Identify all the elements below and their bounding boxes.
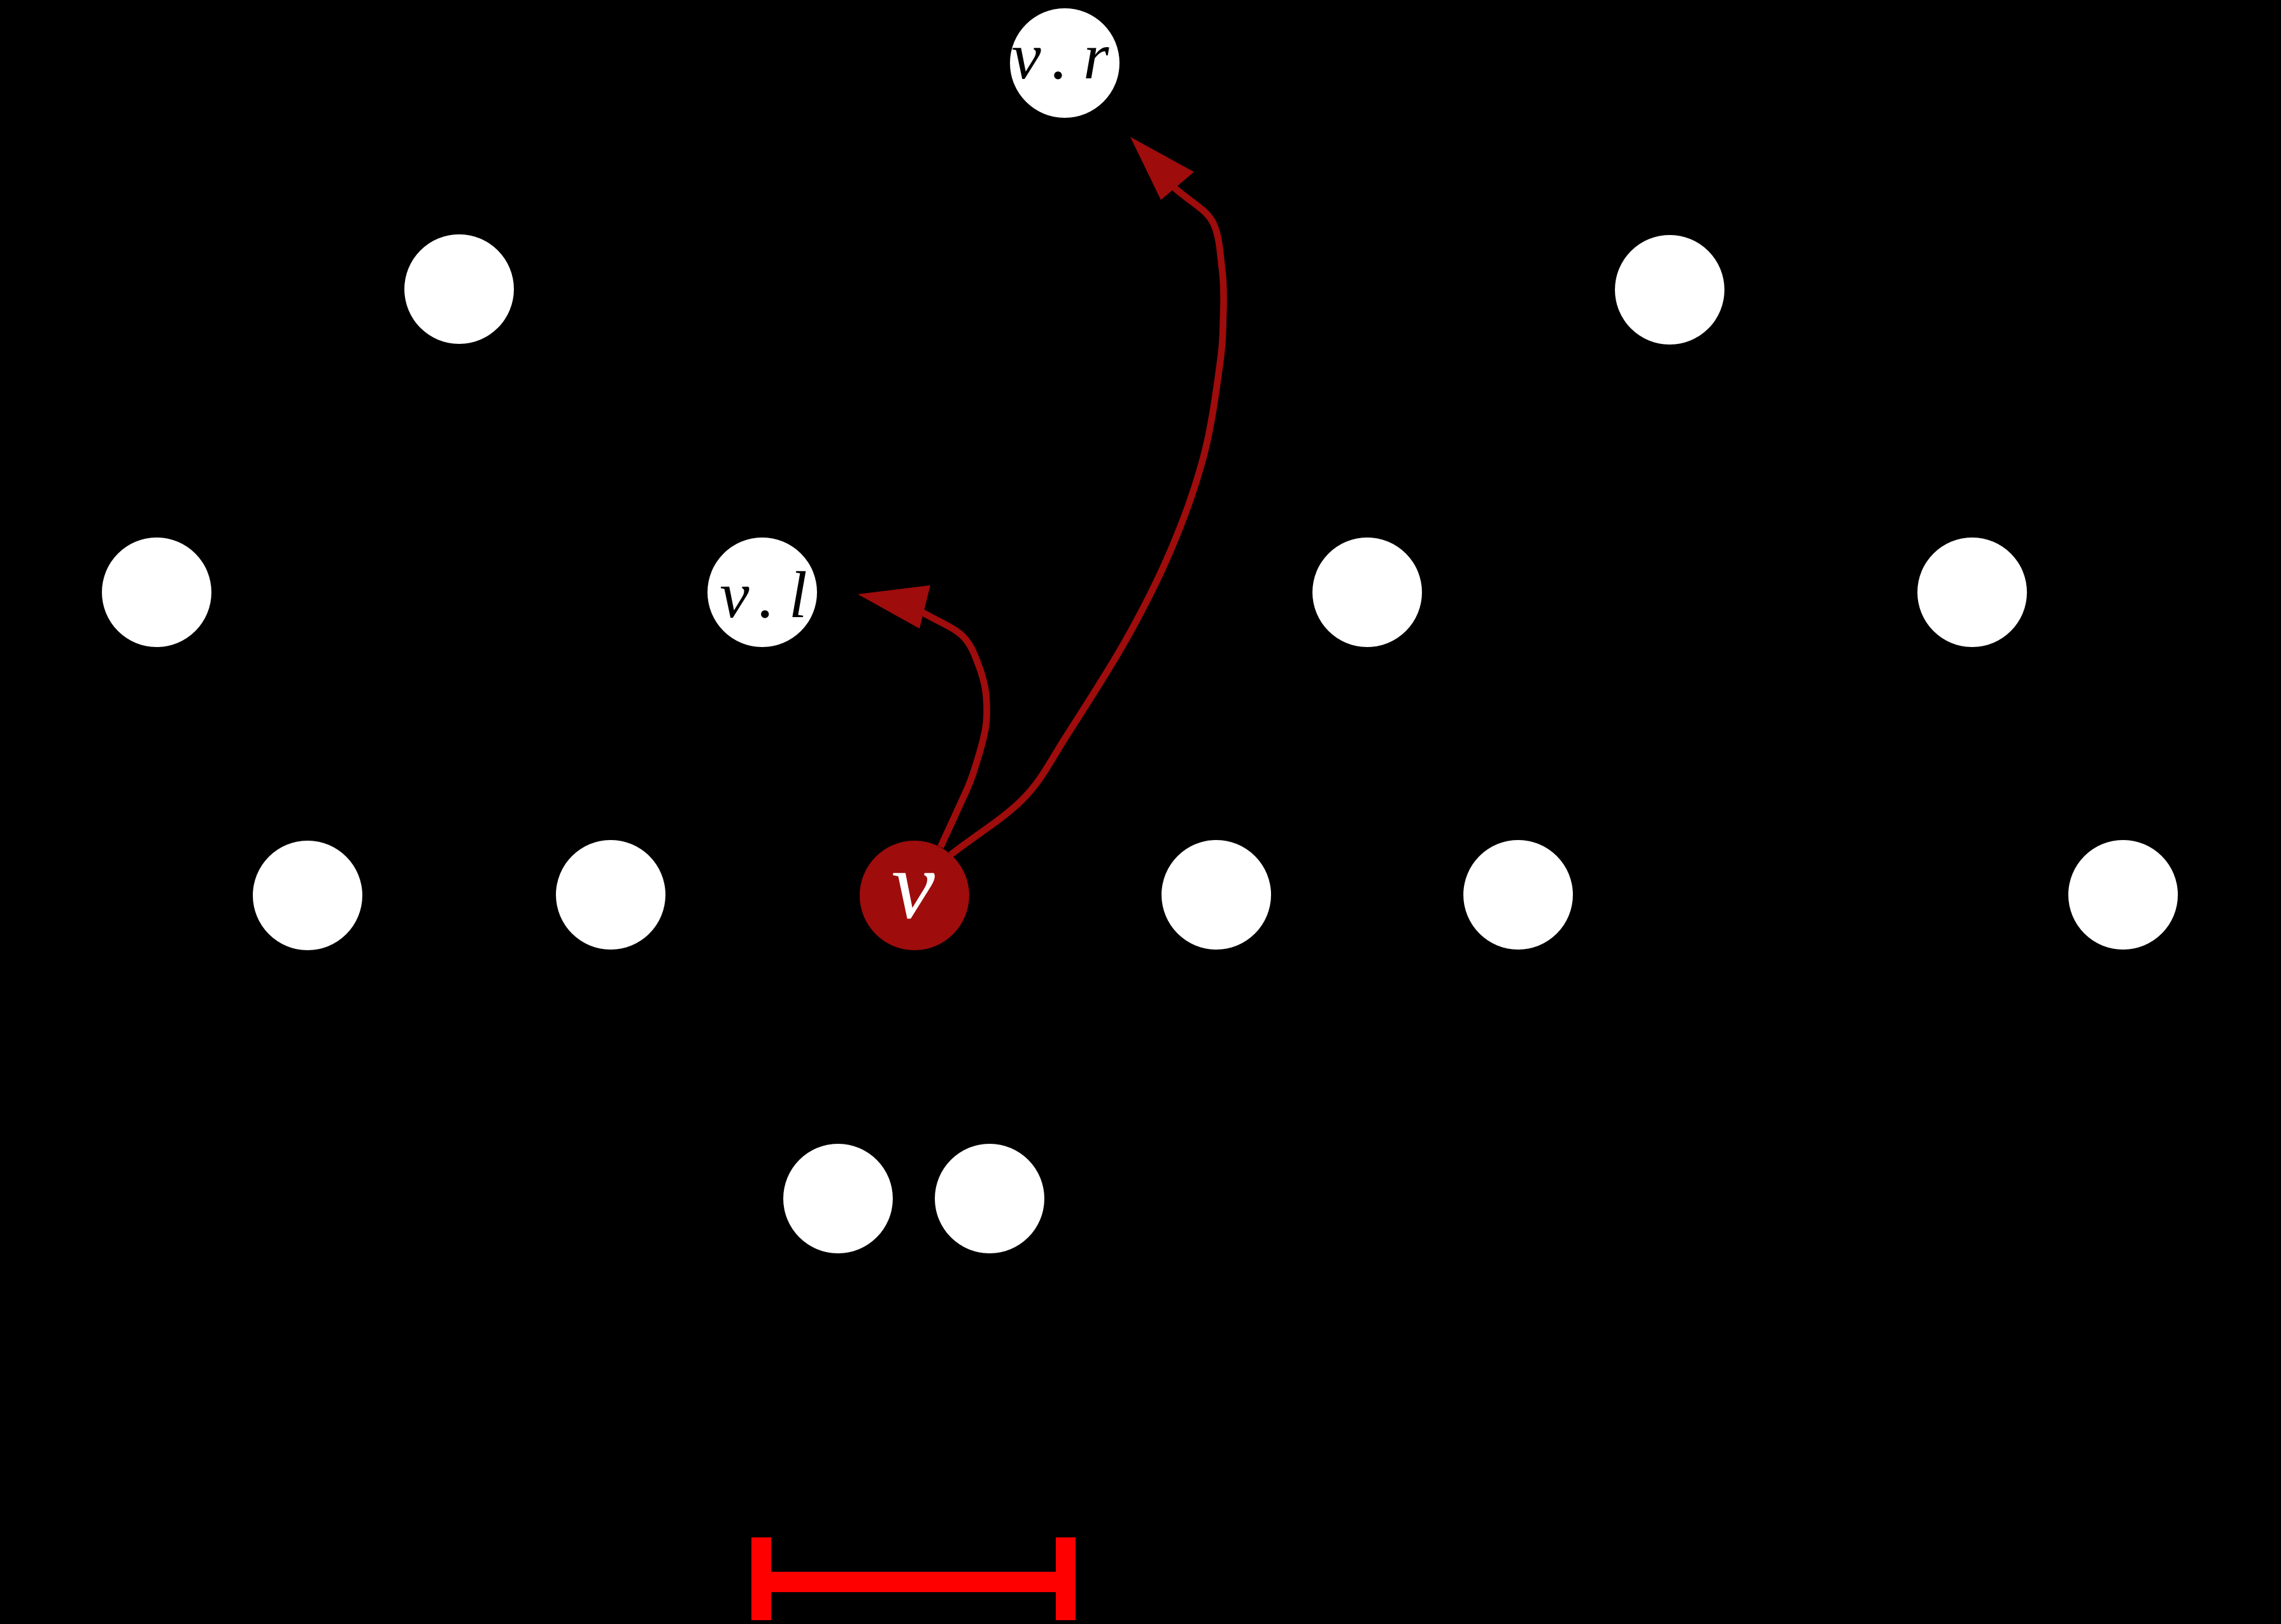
white node row1 left [404,234,514,344]
white node row1 right [1615,235,1724,345]
node v.r (white, top) [1010,8,1124,118]
white node row2 far-left [102,538,211,647]
node v (dark red, row3) [860,832,969,950]
white node row3 c [1162,840,1271,950]
interval marker (bright red I-beam at bottom) [751,1537,1076,1620]
white node row3 d [1463,840,1573,950]
svg-text:v.l: v.l [720,559,821,632]
svg-text:v.r: v.r [1012,20,1125,93]
white node row4 right [935,1144,1044,1253]
white node row3 a [253,841,362,950]
white node row2 mid-right [1312,538,1422,647]
white node row2 far-right [1917,538,2027,647]
white node row3 b [556,840,665,950]
arrow v to v.r (dark red curved pointer) [951,137,1224,855]
svg-text:v: v [892,832,935,939]
white node row3 e (far right) [2068,840,2178,950]
arrow v to v.l (dark red curved pointer) [858,585,987,847]
node v.l (white, row2) [707,538,821,647]
white node row4 left [783,1144,893,1253]
